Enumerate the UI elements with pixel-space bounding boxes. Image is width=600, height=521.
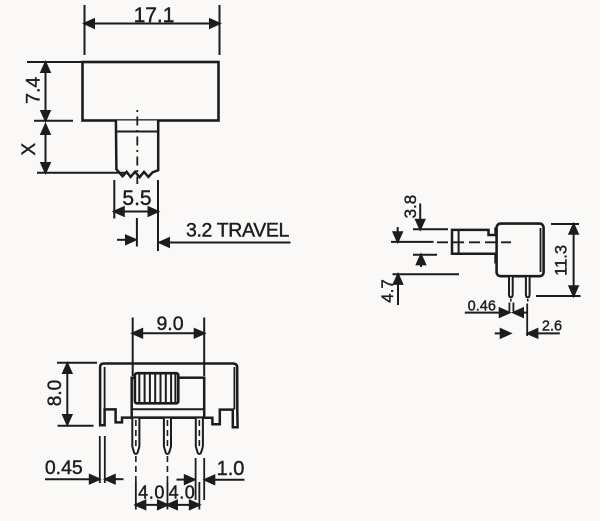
- dim X dimension line: [45, 125, 47, 173]
- dim 3.8 lower extension: [413, 254, 437, 256]
- dim 9.0 extension right: [203, 318, 205, 377]
- dim 7.4 top extension: [27, 61, 82, 63]
- dim 2.6 left arrow: [495, 332, 502, 334]
- dim 4.0 first dimension line: [136, 504, 168, 506]
- pin 3 centerline: [198, 420, 200, 450]
- dim 3.8 lower arrow: [420, 263, 422, 268]
- pin 1 centerline: [135, 420, 137, 450]
- dim 4.7 lower arrow: [397, 284, 399, 306]
- pin 2 (front view): [164, 419, 171, 455]
- pin 2 centerline: [166, 420, 168, 450]
- cylinder end cap line: [458, 230, 460, 254]
- svg-text:1.0: 1.0: [217, 458, 245, 480]
- actuator knob (top view) with serrated tip: [116, 121, 158, 178]
- dim 11.3 top extension: [551, 223, 579, 225]
- centerline (dash) through cylinder: [437, 241, 511, 243]
- knurled slider knob: [135, 373, 178, 403]
- pin A tip dash: [510, 299, 512, 302]
- dim 0.46 right arrow: [519, 312, 528, 314]
- pin 3 edge extension lines: [195, 458, 197, 500]
- dim 9.0 extension left: [132, 318, 134, 377]
- body inner right line: [540, 228, 542, 272]
- dim 0.46 extension ticks: [508, 303, 510, 312]
- dim 11.3 bottom extension: [536, 295, 581, 297]
- dim 0.46 left arrow: [465, 312, 501, 314]
- dim 7.4 dimension line: [45, 63, 47, 121]
- body left edge bump bottom: [494, 255, 496, 264]
- slider base block: [132, 378, 205, 418]
- travel center mark line: [136, 218, 138, 247]
- pin 3 (front view): [196, 419, 203, 455]
- svg-text:7.4: 7.4: [23, 77, 45, 104]
- dim 7.4 / X shared extension: [34, 120, 73, 122]
- svg-text:9.0: 9.0: [156, 313, 183, 335]
- svg-text:17.1: 17.1: [134, 4, 175, 27]
- dim 17.1 extension line right: [219, 5, 221, 55]
- body inner right edge line: [233, 367, 235, 410]
- body inner left edge line: [104, 367, 106, 409]
- actuator cylinder (side view): [452, 230, 497, 254]
- dim 2.6 right arrow: [533, 332, 560, 334]
- dim 11.3 dimension line: [573, 224, 575, 295]
- dim 5.5 dimension line: [114, 211, 158, 213]
- svg-text:3.8: 3.8: [401, 195, 420, 219]
- pin 2 centerline extension: [166, 456, 168, 482]
- svg-text:11.3: 11.3: [552, 245, 570, 276]
- pin A (side view): [509, 277, 513, 297]
- dim 0.45 left arrow: [45, 478, 90, 480]
- pin 1 (front view): [132, 419, 139, 455]
- svg-text:8.0: 8.0: [45, 380, 66, 406]
- switch body outline (front view) with mounting feet: [100, 364, 238, 428]
- pin 3 centerline extension: [198, 482, 200, 510]
- pin B tip dash: [527, 299, 529, 302]
- dim 1.0 right arrow: [210, 479, 245, 481]
- svg-text:0.46: 0.46: [468, 299, 496, 315]
- dim 1.0 left arrow: [177, 479, 186, 481]
- actuator centerline (dash-dot): [136, 110, 138, 184]
- dim 9.0 dimension line: [133, 332, 205, 334]
- dim 4.7 upper arrow: [397, 227, 399, 234]
- body left edge bump top: [494, 228, 496, 237]
- travel right leader arrow: [161, 242, 291, 244]
- dim 3.8 upper extension: [413, 228, 448, 230]
- switch body (side view): [497, 224, 544, 277]
- dim 0.45 right arrow: [111, 478, 124, 480]
- dim 0.45 extension lines: [99, 436, 101, 483]
- svg-text:4.0: 4.0: [169, 482, 196, 502]
- dim 4.7 bottom extension: [393, 273, 460, 275]
- dim 5.5 extension left: [113, 180, 115, 219]
- dim X bottom extension: [37, 172, 125, 174]
- dim 8.0 top extension: [57, 362, 97, 364]
- dim 8.0 dimension line: [66, 364, 68, 425]
- dim 17.1 extension line left: [84, 5, 86, 55]
- svg-text:4.0: 4.0: [138, 482, 165, 502]
- dim 5.5 / travel extension right: [157, 180, 159, 251]
- svg-text:0.45: 0.45: [45, 457, 83, 479]
- knob knurl hatching: [139, 374, 175, 403]
- dim 17.1 dimension line: [85, 23, 220, 25]
- dim 8.0 bottom extension: [58, 425, 94, 427]
- svg-text:X: X: [19, 143, 40, 156]
- actuator collar line: [116, 131, 158, 133]
- dim 3.8 upper arrow: [419, 204, 421, 222]
- svg-text:4.7: 4.7: [378, 279, 397, 303]
- pin B extension line: [526, 304, 528, 337]
- dim 4.0 second dimension line: [167, 504, 199, 506]
- pin B (side view): [526, 277, 530, 297]
- svg-text:3.2 TRAVEL: 3.2 TRAVEL: [186, 220, 290, 242]
- slider base shelf line: [132, 408, 205, 410]
- svg-text:2.6: 2.6: [542, 319, 562, 335]
- travel left leader arrow: [117, 239, 127, 241]
- dim 4.7 centerline extension: [391, 241, 434, 243]
- switch body (top view): [83, 62, 219, 121]
- pin 1 centerline extension: [135, 456, 137, 482]
- svg-text:5.5: 5.5: [122, 187, 151, 210]
